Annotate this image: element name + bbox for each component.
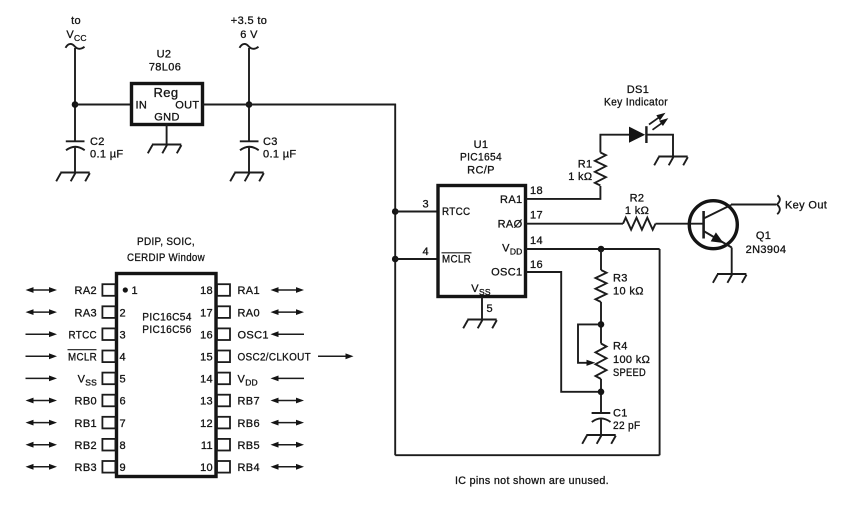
wire U2 OUT to node: [202, 104, 249, 106]
wire R2 to Q1 base: [656, 223, 704, 225]
svg-text:RA1: RA1: [238, 285, 260, 297]
svg-text:MCLR: MCLR: [442, 254, 471, 266]
arrow for RB4: [271, 464, 305, 470]
arrow for RB0: [26, 398, 58, 404]
svg-text:7: 7: [120, 418, 126, 430]
svg-text:PIC16C54: PIC16C54: [142, 312, 192, 324]
arrow for RB6: [271, 420, 305, 426]
wire R3 bottom to R4 top: [600, 302, 602, 344]
svg-text:R4: R4: [613, 341, 628, 353]
pin 11 box right: [217, 439, 230, 451]
svg-text:14: 14: [530, 235, 543, 247]
svg-text:Key Indicator: Key Indicator: [604, 97, 668, 109]
wire LED cathode to ground: [647, 135, 673, 156]
svg-text:GND: GND: [154, 112, 180, 124]
arrow for RB5: [271, 442, 305, 448]
svg-text:1 kΩ: 1 kΩ: [625, 205, 649, 217]
wire VSS pin 5 stub: [481, 297, 483, 319]
svg-text:14: 14: [200, 374, 213, 386]
svg-text:OSC1: OSC1: [238, 329, 269, 341]
svg-text:RB4: RB4: [238, 462, 260, 474]
svg-text:78L06: 78L06: [149, 62, 181, 74]
arrow for RB7: [271, 398, 305, 404]
wire RA1 pin 18: [526, 186, 600, 199]
wire node to left rail corner: [249, 104, 396, 106]
junction dot at Vcc/C2: [72, 101, 79, 108]
svg-text:RC/P: RC/P: [467, 165, 495, 177]
arrow for OSC2/CLKOUT: [318, 353, 354, 359]
svg-text:RA3: RA3: [75, 307, 97, 319]
svg-text:RB0: RB0: [75, 396, 97, 408]
capacitor C2: [66, 136, 124, 172]
pin 10 box right: [217, 461, 230, 473]
svg-text:16: 16: [530, 259, 543, 271]
arrow for VSS: [26, 376, 58, 382]
regulator U2 78L06: [132, 49, 203, 125]
pin 9 box left: [102, 461, 115, 473]
arrow for MCLR: [26, 353, 58, 359]
potentiometer wiper arrow: [587, 360, 596, 366]
resistor R3: [596, 270, 644, 302]
resistor R1: [568, 153, 606, 186]
wire right power rail: [659, 249, 661, 455]
pin 7 box left: [102, 417, 115, 429]
svg-text:IC pins not shown are unused.: IC pins not shown are unused.: [455, 475, 609, 487]
svg-text:100 kΩ: 100 kΩ: [613, 354, 650, 366]
svg-text:17: 17: [200, 307, 213, 319]
svg-text:C1: C1: [613, 408, 628, 420]
wire Q1 collector to Key Out: [731, 204, 776, 206]
svg-text:RA2: RA2: [75, 285, 97, 297]
svg-text:12: 12: [200, 418, 213, 430]
arrow for OSC1: [271, 331, 305, 337]
svg-text:13: 13: [200, 396, 213, 408]
ground below C1: [582, 435, 616, 444]
wire Vcc down to node: [74, 48, 76, 141]
svg-text:OSC1: OSC1: [491, 267, 522, 279]
junction dot VDD/R3: [598, 246, 605, 253]
svg-text:Reg: Reg: [154, 85, 179, 100]
svg-text:9: 9: [120, 462, 126, 474]
arrow for RA1: [271, 287, 305, 293]
svg-text:IN: IN: [136, 100, 148, 112]
LED DS1: [604, 84, 668, 143]
capacitor C1: [592, 408, 641, 435]
pin 2 box left: [102, 306, 115, 318]
svg-text:RB6: RB6: [238, 418, 260, 430]
pin 4 box left: [102, 351, 115, 363]
wire left power rail: [394, 104, 396, 456]
svg-text:18: 18: [530, 185, 543, 197]
pin 6 box left: [102, 395, 115, 407]
connector squiggle Vcc: [66, 44, 85, 49]
pin 1 box left: [102, 284, 115, 296]
svg-text:RAØ: RAØ: [498, 219, 523, 231]
svg-text:4: 4: [120, 352, 126, 364]
svg-text:U2: U2: [157, 49, 172, 61]
svg-text:PDIP, SOIC,: PDIP, SOIC,: [137, 236, 195, 248]
pin 8 box left: [102, 439, 115, 451]
arrow for RA0: [271, 309, 305, 315]
node Vcc-input: [66, 15, 86, 43]
svg-text:3: 3: [120, 329, 126, 341]
connector squiggle +3.5V: [240, 44, 259, 49]
svg-text:0.1 µF: 0.1 µF: [263, 149, 297, 161]
ground below C2: [56, 173, 90, 182]
svg-text:22 pF: 22 pF: [613, 420, 641, 432]
svg-text:R3: R3: [613, 273, 628, 285]
svg-text:RB5: RB5: [238, 440, 260, 452]
svg-text:Q1: Q1: [756, 230, 771, 242]
pin 12 box right: [217, 417, 230, 429]
svg-text:PIC1654: PIC1654: [460, 152, 502, 164]
arrow for RTCC: [26, 331, 58, 337]
wire VDD pin 14 to right rail: [526, 248, 660, 250]
junction dot at OUT/C3: [246, 101, 253, 108]
arrow for RB2: [26, 442, 58, 448]
svg-text:Key Out: Key Out: [785, 200, 827, 212]
svg-text:8: 8: [120, 440, 126, 452]
ground below U1: [463, 320, 497, 329]
svg-text:3: 3: [423, 199, 429, 211]
svg-text:OUT: OUT: [175, 100, 199, 112]
arrow for RB1: [26, 420, 58, 426]
svg-text:MCLR: MCLR: [68, 352, 97, 364]
svg-text:5: 5: [487, 303, 493, 315]
svg-text:RA0: RA0: [238, 307, 260, 319]
svg-text:U1: U1: [474, 139, 489, 151]
pin 17 box right: [217, 306, 230, 318]
wire Q1 emitter to ground: [731, 248, 733, 274]
connector squiggle Key Out: [777, 195, 780, 214]
transistor Q1 2N3904: [689, 201, 786, 256]
svg-text:0.1 µF: 0.1 µF: [90, 149, 124, 161]
svg-text:C3: C3: [263, 136, 278, 148]
svg-text:2: 2: [120, 307, 126, 319]
pin 14 box right: [217, 373, 230, 385]
svg-text:16: 16: [200, 329, 213, 341]
arrow for RA3: [26, 309, 58, 315]
svg-text:11: 11: [201, 440, 213, 452]
svg-text:DS1: DS1: [627, 84, 649, 96]
svg-text:RB2: RB2: [75, 440, 97, 452]
ground below C3: [230, 173, 264, 182]
wire to MCLR pin 4: [395, 258, 438, 260]
junction dot R3/R4 wiper loop: [598, 321, 605, 328]
wire node to U2 IN: [75, 104, 132, 106]
wire OSC1 pin 16 down: [526, 272, 601, 392]
wire U2 GND stub: [166, 124, 168, 145]
pin 13 box right: [217, 395, 230, 407]
wire R4 bottom to C1: [600, 379, 602, 413]
pin 15 box right: [217, 351, 230, 363]
svg-text:RB3: RB3: [75, 462, 97, 474]
svg-text:RTCC: RTCC: [69, 329, 98, 341]
resistor R4 potentiometer: [596, 341, 651, 380]
svg-text:R1: R1: [578, 159, 593, 171]
svg-text:RTCC: RTCC: [442, 206, 471, 218]
pin label MCLR: [68, 350, 98, 364]
wire RA0 pin 17 to R2: [526, 223, 623, 225]
ground below LED: [654, 157, 688, 166]
junction dot OSC1/R4/C1: [598, 389, 605, 396]
pin 18 box right: [217, 284, 230, 296]
svg-text:5: 5: [120, 374, 126, 386]
svg-text:6 V: 6 V: [240, 29, 258, 41]
svg-text:R2: R2: [630, 193, 645, 205]
svg-text:18: 18: [200, 285, 213, 297]
wire +6V down through node to C3: [248, 48, 250, 141]
ground below Q1: [713, 274, 747, 283]
node +3.5V input: [231, 15, 267, 41]
pin 5 box left: [102, 373, 115, 385]
svg-text:4: 4: [423, 246, 429, 258]
pin 16 box right: [217, 328, 230, 340]
wire node to R3: [600, 249, 602, 270]
svg-text:1: 1: [132, 285, 138, 297]
svg-text:OSC2/CLKOUT: OSC2/CLKOUT: [238, 352, 312, 364]
arrow for RB3: [26, 464, 58, 470]
arrow for VDD: [271, 376, 305, 382]
svg-text:1 kΩ: 1 kΩ: [568, 171, 592, 183]
svg-text:CERDIP Window: CERDIP Window: [127, 252, 205, 264]
ground below U2: [148, 145, 182, 154]
DIP package diagram header: [127, 236, 205, 264]
junction dot RTCC tap: [392, 208, 399, 215]
svg-text:10: 10: [200, 462, 213, 474]
svg-text:+3.5 to: +3.5 to: [231, 15, 267, 27]
arrow for RA2: [26, 287, 58, 293]
junction dot MCLR tap: [392, 256, 399, 263]
svg-text:SPEED: SPEED: [613, 367, 646, 379]
svg-text:RB1: RB1: [75, 418, 97, 430]
svg-text:6: 6: [120, 396, 126, 408]
IC U1 PIC1654: [438, 139, 526, 297]
DIP package body PIC16C54/56: [117, 274, 217, 477]
wire wiper loop: [578, 324, 601, 362]
capacitor C3: [240, 136, 297, 172]
svg-text:C2: C2: [90, 136, 105, 148]
svg-text:to: to: [71, 15, 81, 27]
pin 3 box left: [102, 328, 115, 340]
svg-text:15: 15: [200, 352, 213, 364]
svg-text:10 kΩ: 10 kΩ: [613, 286, 644, 298]
wire bottom power rail: [395, 454, 659, 456]
svg-text:RB7: RB7: [238, 396, 260, 408]
wire to RTCC pin 3: [395, 211, 438, 213]
svg-text:17: 17: [530, 210, 543, 222]
resistor R2: [623, 193, 656, 230]
svg-text:PIC16C56: PIC16C56: [142, 324, 192, 336]
svg-text:2N3904: 2N3904: [746, 244, 787, 256]
svg-text:RA1: RA1: [500, 194, 522, 206]
wire R1 top to LED: [600, 135, 630, 153]
